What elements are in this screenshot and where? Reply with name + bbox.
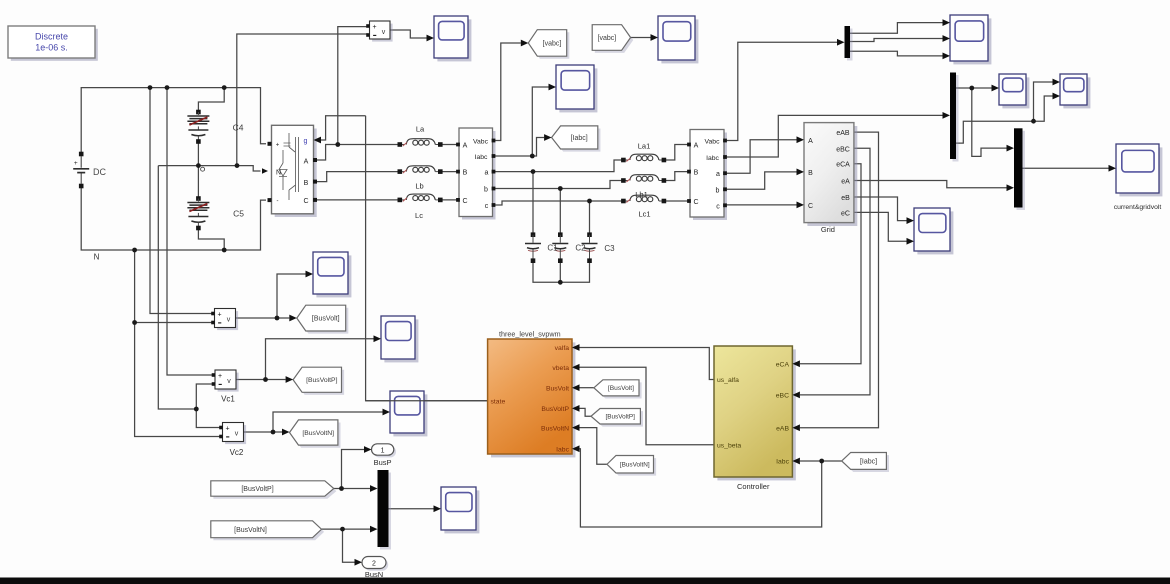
svg-text:[vabc]: [vabc] xyxy=(543,40,562,47)
svg-text:C2: C2 xyxy=(575,244,586,253)
svg-text:[BusVolt]: [BusVolt] xyxy=(608,385,634,392)
svg-text:eBC: eBC xyxy=(836,146,850,153)
svg-text:1: 1 xyxy=(381,447,385,454)
svg-text:three_level_svpwm: three_level_svpwm xyxy=(499,330,561,339)
svg-text:+: + xyxy=(276,142,280,148)
svg-text:eAB: eAB xyxy=(776,426,789,433)
svg-text:La1: La1 xyxy=(638,142,651,151)
svg-text:Iabc: Iabc xyxy=(475,154,488,161)
svg-text:eCA: eCA xyxy=(776,361,790,368)
svg-text:C1: C1 xyxy=(547,244,558,253)
svg-text:+: + xyxy=(218,373,222,380)
svg-text:Vc2: Vc2 xyxy=(230,448,244,457)
svg-text:La: La xyxy=(416,125,425,134)
svg-text:vbeta: vbeta xyxy=(552,365,569,372)
svg-text:eB: eB xyxy=(841,195,850,202)
svg-text:A: A xyxy=(694,143,699,150)
svg-text:Controller: Controller xyxy=(737,482,770,491)
svg-text:Iabc: Iabc xyxy=(706,155,719,162)
svg-text:B: B xyxy=(808,170,813,177)
svg-text:[BusVolt]: [BusVolt] xyxy=(312,316,340,323)
svg-text:N: N xyxy=(276,170,281,177)
svg-text:B: B xyxy=(463,170,468,177)
svg-text:Vabc: Vabc xyxy=(473,138,489,145)
svg-text:v: v xyxy=(227,378,231,385)
svg-text:N: N xyxy=(94,253,100,262)
svg-text:[BusVoltP]: [BusVoltP] xyxy=(605,414,635,421)
svg-text:1e-06 s.: 1e-06 s. xyxy=(35,43,68,53)
svg-text:Iabc: Iabc xyxy=(556,447,569,454)
svg-text:a: a xyxy=(716,171,720,178)
svg-text:Lb: Lb xyxy=(415,182,423,191)
svg-text:eA: eA xyxy=(841,179,850,186)
svg-text:Lb1: Lb1 xyxy=(635,190,648,199)
svg-text:c: c xyxy=(485,203,489,210)
svg-text:B: B xyxy=(304,180,309,187)
svg-text:Lc: Lc xyxy=(415,211,423,220)
svg-text:DC: DC xyxy=(93,167,106,177)
svg-text:Discrete: Discrete xyxy=(35,32,68,42)
svg-text:BusP: BusP xyxy=(374,458,392,467)
svg-text:+: + xyxy=(217,312,221,319)
svg-text:a: a xyxy=(485,170,489,177)
svg-text:valfa: valfa xyxy=(555,345,570,352)
svg-text:BusVoltN: BusVoltN xyxy=(541,425,569,432)
svg-text:v: v xyxy=(382,29,386,36)
svg-text:eCA: eCA xyxy=(836,162,850,169)
svg-text:v: v xyxy=(235,431,239,438)
svg-text:Vabc: Vabc xyxy=(705,138,721,145)
svg-text:BusVolt: BusVolt xyxy=(546,385,569,392)
svg-text:C: C xyxy=(808,203,813,210)
svg-text:[BusVoltN]: [BusVoltN] xyxy=(620,462,650,469)
svg-text:state: state xyxy=(491,398,506,405)
svg-text:C: C xyxy=(693,199,698,206)
svg-text:eBC: eBC xyxy=(776,393,789,400)
svg-text:A: A xyxy=(463,143,468,150)
svg-text:eC: eC xyxy=(841,210,850,217)
svg-text:[BusVoltP]: [BusVoltP] xyxy=(241,486,273,493)
svg-text:A: A xyxy=(304,158,309,165)
svg-text:us_alfa: us_alfa xyxy=(717,377,739,384)
svg-text:C5: C5 xyxy=(233,209,244,219)
svg-text:eAB: eAB xyxy=(836,130,850,137)
svg-text:us_beta: us_beta xyxy=(717,443,741,450)
svg-text:+: + xyxy=(74,160,78,167)
svg-text:v: v xyxy=(227,317,231,324)
svg-text:g: g xyxy=(304,138,308,145)
svg-text:A: A xyxy=(808,138,813,145)
svg-text:Lc1: Lc1 xyxy=(638,210,650,219)
svg-text:c: c xyxy=(716,203,720,210)
svg-text:b: b xyxy=(716,187,720,194)
svg-text:[vabc]: [vabc] xyxy=(598,35,617,42)
svg-text:b: b xyxy=(484,187,488,194)
svg-text:[Iabc]: [Iabc] xyxy=(571,135,588,142)
svg-text:C: C xyxy=(303,198,308,205)
svg-text:C3: C3 xyxy=(604,244,615,253)
svg-text:+: + xyxy=(372,24,376,31)
svg-text:+: + xyxy=(225,426,229,433)
svg-text:[BusVoltP]: [BusVoltP] xyxy=(306,377,337,384)
svg-text:[BusVoltN]: [BusVoltN] xyxy=(302,430,334,437)
svg-text:Grid: Grid xyxy=(821,225,835,234)
svg-text:Vc1: Vc1 xyxy=(221,395,235,404)
svg-text:Iabc: Iabc xyxy=(776,459,789,466)
svg-text:-: - xyxy=(277,199,279,205)
svg-text:C: C xyxy=(462,198,467,205)
svg-text:2: 2 xyxy=(372,560,376,567)
svg-text:[BusVoltN]: [BusVoltN] xyxy=(234,527,267,534)
svg-text:BusVoltP: BusVoltP xyxy=(541,406,569,413)
svg-text:C4: C4 xyxy=(233,123,244,133)
svg-text:current&gridvolt: current&gridvolt xyxy=(1114,204,1162,211)
svg-text:B: B xyxy=(694,170,699,177)
svg-text:[Iabc]: [Iabc] xyxy=(860,458,877,465)
